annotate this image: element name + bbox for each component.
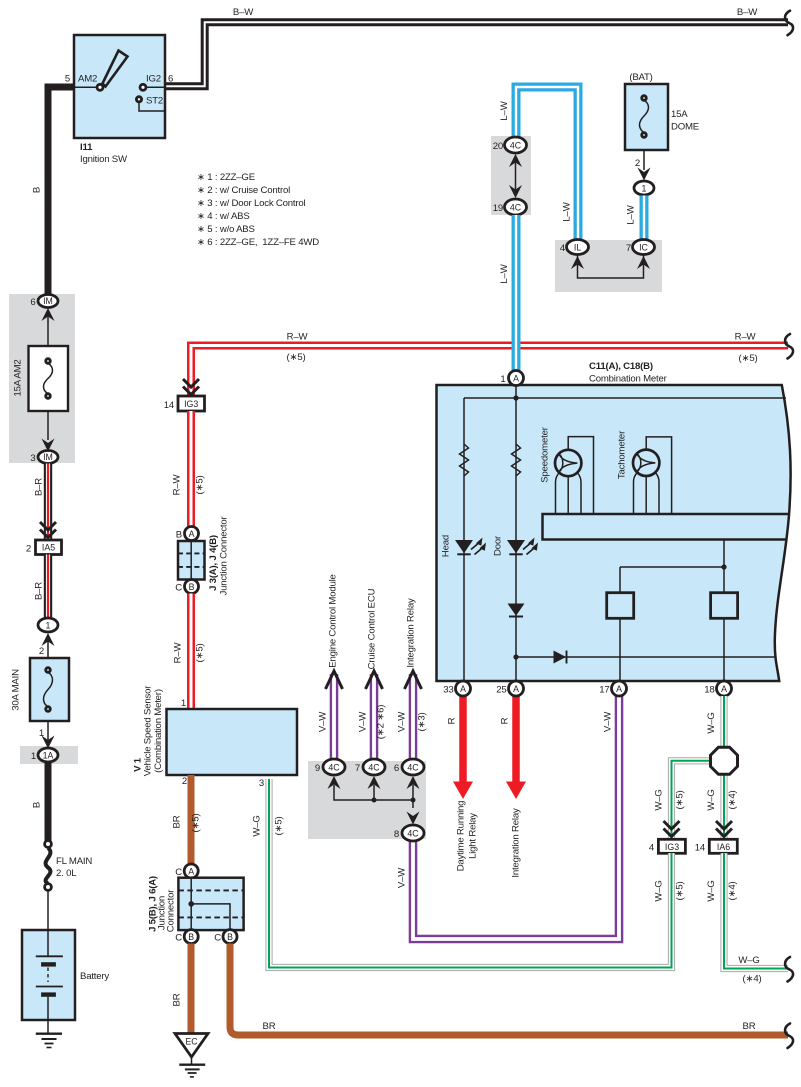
svg-text:IM: IM <box>43 452 53 462</box>
svg-text:A: A <box>513 374 519 384</box>
wire V-W integration relay <box>409 674 418 759</box>
wire R-W from IG3 to J3 A <box>187 411 195 527</box>
pin 2 label <box>635 158 640 169</box>
svg-text:W–G: W–G <box>738 955 759 966</box>
arrow to cruise control ecu <box>366 671 383 689</box>
pin 18 label <box>704 685 714 696</box>
svg-text:A: A <box>460 684 466 694</box>
svg-text:Ignition SW: Ignition SW <box>80 154 128 165</box>
svg-text:(∗5): (∗5) <box>195 476 206 495</box>
connector 20 4C <box>505 137 527 153</box>
svg-text:20: 20 <box>493 141 503 152</box>
svg-text:R–W: R–W <box>287 332 309 343</box>
svg-text:Speedometer: Speedometer <box>540 426 551 482</box>
pin 6 label <box>394 763 399 774</box>
junction connector J5(B) J6(A) circle A <box>184 864 198 878</box>
label Speedometer <box>540 426 551 482</box>
break symbol B-W <box>785 11 793 36</box>
fuse 15A DOME symbol <box>640 96 649 138</box>
label (BAT) <box>629 72 652 83</box>
pin 1 label V1 <box>181 698 186 709</box>
wire W-G from 18 A to octagon <box>720 696 727 748</box>
connector 9 4C <box>323 759 345 775</box>
svg-text:L–W: L–W <box>562 201 573 221</box>
arrow to integration relay <box>405 671 422 689</box>
notes list <box>197 172 319 248</box>
svg-text:2. 0L: 2. 0L <box>56 868 77 879</box>
pin C label <box>175 583 182 594</box>
svg-text:R: R <box>500 717 511 724</box>
wire R-W horizontal from corner to right break <box>191 346 788 397</box>
svg-text:25: 25 <box>496 685 506 696</box>
label W-G below IA6 <box>706 880 717 901</box>
pin 9 label <box>315 763 320 774</box>
fuse 15A DOME box <box>625 84 668 150</box>
squares to pins 17/18 <box>620 618 724 681</box>
label Junction Connector (J3/J4) <box>219 515 230 595</box>
label 15A AM2 <box>13 359 24 396</box>
arrow to engine control module <box>326 671 343 689</box>
label W-G right branch <box>706 789 717 810</box>
connector 7 IC <box>633 240 655 255</box>
svg-text:C: C <box>175 933 182 944</box>
relay square left <box>607 593 634 619</box>
pin C label J5 B left <box>175 933 182 944</box>
label 30A MAIN <box>11 669 22 711</box>
svg-text:9: 9 <box>315 763 320 774</box>
label (*5) at V1 <box>274 817 285 836</box>
svg-text:(∗5): (∗5) <box>675 882 686 901</box>
label (*3) <box>417 713 428 732</box>
junction connector J3(A) J4(B) circle A <box>185 527 199 541</box>
svg-text:∗ 2 : w/ Cruise Control: ∗ 2 : w/ Cruise Control <box>197 185 290 196</box>
svg-text:W–G: W–G <box>252 815 263 836</box>
connector 1 oval DOME <box>634 181 654 195</box>
break symbol BR <box>785 1024 793 1049</box>
pin 33 label <box>443 685 453 696</box>
label Connector (J5/J6) <box>166 889 177 932</box>
label FL MAIN 2.0L <box>56 856 92 879</box>
ignition switch I11 box <box>74 35 165 138</box>
svg-text:R–W: R–W <box>172 474 183 496</box>
pin 6 label <box>30 297 35 308</box>
junction connector J5/J6 circle B left <box>184 930 198 944</box>
fuse 15A AM2 box <box>29 346 69 411</box>
gray connector block: 15A AM2 fuse area <box>9 294 75 463</box>
wire R-W from J3 B to V1 pin 1 <box>187 594 195 710</box>
label (*5) BR <box>191 814 202 833</box>
arrow up into 7 IC <box>637 256 650 269</box>
label J3(A) J4(B) <box>208 535 219 591</box>
svg-text:3: 3 <box>30 453 35 464</box>
svg-text:∗ 4 : w/ ABS: ∗ 4 : w/ ABS <box>197 211 250 222</box>
pin 3 label <box>30 453 35 464</box>
wire B-R from IA5 to connector 1 <box>44 555 52 619</box>
svg-text:V–W: V–W <box>318 711 329 732</box>
pin 20 label <box>493 141 503 152</box>
svg-text:6: 6 <box>168 74 173 85</box>
svg-text:4C: 4C <box>510 203 522 213</box>
wire W-G octagon bottom to 14 IA6 <box>720 773 727 839</box>
label V-W 3 <box>397 711 408 732</box>
break symbol R-W <box>785 334 793 359</box>
label Ignition SW <box>80 154 128 165</box>
wire L-W from 19 4C down to meter pin 1 A <box>512 215 521 371</box>
label IG2 <box>146 74 161 85</box>
pin 5 label <box>65 74 70 85</box>
svg-text:FL MAIN: FL MAIN <box>56 856 92 867</box>
wire to 30A MAIN <box>47 639 49 658</box>
wire stub IG2 <box>146 86 165 88</box>
red arrow integration relay <box>506 696 526 799</box>
svg-text:C: C <box>214 933 221 944</box>
LED door <box>507 538 538 555</box>
wire V-W cruise control ecu <box>370 674 379 759</box>
svg-text:(∗2 ∗6): (∗2 ∗6) <box>376 705 387 739</box>
svg-text:4C: 4C <box>407 763 419 773</box>
terminal ST2 and stub <box>136 97 165 111</box>
label (*5) lower <box>195 644 206 663</box>
connector 1 oval <box>38 618 58 632</box>
svg-text:2: 2 <box>39 646 44 657</box>
svg-text:R: R <box>447 717 458 724</box>
svg-text:30A MAIN: 30A MAIN <box>11 669 22 711</box>
label BR bottom right <box>743 1021 756 1032</box>
meter internal top bus <box>464 395 786 400</box>
wire BR from V1 pin 2 to J5 A <box>188 775 195 865</box>
meter door circuit vertical <box>515 385 517 681</box>
label L-W lower <box>499 263 510 283</box>
pin 14 label <box>695 843 706 854</box>
svg-text:B: B <box>32 802 43 808</box>
label (*4) right branch <box>727 791 738 810</box>
connector 8 4C <box>402 825 424 841</box>
connector 1 A meter <box>509 371 524 386</box>
gray connector block: IL/IC <box>555 240 662 292</box>
svg-text:BR: BR <box>263 1021 276 1032</box>
wire stub AM2 <box>74 86 97 88</box>
label Combination Meter <box>589 374 668 385</box>
label Head <box>441 535 452 557</box>
wire below fuse <box>47 411 49 440</box>
arrow up into connector 1 <box>42 633 55 646</box>
svg-text:W–G: W–G <box>654 880 665 901</box>
svg-text:4C: 4C <box>328 763 340 773</box>
svg-text:B: B <box>32 187 43 193</box>
printed plate band <box>543 514 789 540</box>
svg-text:R–W: R–W <box>735 332 757 343</box>
diode door line <box>508 604 525 617</box>
red arrow daytime running light relay <box>453 696 473 799</box>
svg-text:IA6: IA6 <box>717 842 730 852</box>
arrow down into connector 1 <box>638 168 651 181</box>
label Tachometer <box>617 430 628 479</box>
connector 3 IM <box>38 451 58 464</box>
arrow down into 1A <box>42 736 55 749</box>
fuse 30A MAIN symbol <box>44 668 53 712</box>
svg-text:A: A <box>513 684 519 694</box>
wire BR from J5 B right to bottom right break <box>230 944 788 1036</box>
svg-text:1: 1 <box>500 374 505 385</box>
svg-text:Integration Relay: Integration Relay <box>511 808 522 878</box>
tachometer gauge <box>633 437 672 514</box>
arrow down into 8 4C <box>407 812 420 825</box>
pin 4 label <box>560 243 566 254</box>
link wiring 4C block <box>334 785 416 808</box>
label V-W 2 <box>358 711 369 732</box>
svg-text:17: 17 <box>599 685 609 696</box>
pin 1 label <box>31 751 36 762</box>
svg-text:6: 6 <box>30 297 35 308</box>
combination meter box <box>437 385 791 681</box>
junction connector J3/J4 circle B <box>185 580 199 594</box>
svg-text:∗ 1 : 2ZZ–GE: ∗ 1 : 2ZZ–GE <box>197 172 255 183</box>
svg-text:Cruise Control ECU: Cruise Control ECU <box>367 588 378 669</box>
svg-text:B–W: B–W <box>737 7 758 18</box>
fuse 30A MAIN box <box>30 658 69 721</box>
svg-text:(∗5): (∗5) <box>274 817 285 836</box>
wire below DOME fuse <box>643 150 645 170</box>
label (*4) below IA6 <box>727 882 738 901</box>
svg-text:7: 7 <box>626 243 631 254</box>
wire BR from J5 B left to EC ground <box>188 944 195 1034</box>
chevron arrow into 4 IG3 <box>664 821 680 837</box>
svg-text:4: 4 <box>560 243 566 254</box>
ignition switch lever <box>103 51 128 87</box>
terminal AM2 <box>97 84 103 90</box>
pin 19 label <box>493 203 503 214</box>
label Vehicle Speed Sensor <box>143 685 154 776</box>
svg-text:C11(A), C18(B): C11(A), C18(B) <box>589 361 653 372</box>
wire V-W from 17 A down around to 8 4C <box>413 696 619 939</box>
svg-text:(∗4): (∗4) <box>743 974 762 985</box>
svg-text:B–W: B–W <box>233 7 254 18</box>
connector 4 IG3 <box>658 839 685 853</box>
label W-G at V1 <box>252 815 263 836</box>
connector 2 IA5 <box>36 540 62 555</box>
svg-text:IG2: IG2 <box>146 74 161 85</box>
label ST2 <box>146 96 163 107</box>
svg-text:L–W: L–W <box>626 204 637 224</box>
link wire IL-IC <box>578 254 644 278</box>
connector 17 A <box>612 681 627 696</box>
label B-W left <box>233 7 254 18</box>
arrow up into 20 4C <box>509 154 522 167</box>
meter head circuit vertical <box>463 398 465 681</box>
vehicle speed sensor V1 box <box>167 709 298 775</box>
svg-text:BR: BR <box>172 993 183 1006</box>
svg-text:(∗5): (∗5) <box>195 644 206 663</box>
svg-text:(BAT): (BAT) <box>629 72 652 83</box>
svg-text:DOME: DOME <box>671 122 699 133</box>
label (Combination Meter) <box>153 689 164 773</box>
junction connector J3/J4 box <box>178 541 205 580</box>
wire B-W from ignition IG2 to top right break <box>165 22 788 86</box>
svg-text:C: C <box>175 867 182 878</box>
svg-text:B–R: B–R <box>34 478 45 496</box>
label B-R <box>34 478 45 496</box>
svg-text:V–W: V–W <box>397 711 408 732</box>
gray highlight: connector 1A <box>20 746 78 764</box>
svg-text:4C: 4C <box>510 141 522 151</box>
svg-text:Engine Control Module: Engine Control Module <box>328 574 339 667</box>
label R-W lower <box>173 642 184 664</box>
label (*2 *6) <box>376 705 387 739</box>
wire to fuse <box>47 314 49 359</box>
svg-text:ST2: ST2 <box>146 96 163 107</box>
svg-text:19: 19 <box>493 203 503 214</box>
svg-text:J 3(A), J 4(B): J 3(A), J 4(B) <box>208 535 219 591</box>
ground below battery <box>36 1034 62 1048</box>
chevron arrow into IA5 <box>40 522 56 538</box>
svg-text:1A: 1A <box>43 751 54 761</box>
pin 7 label <box>355 763 360 774</box>
pin 7 label <box>626 243 631 254</box>
pin 2 label above 30A MAIN <box>39 646 44 657</box>
svg-text:4C: 4C <box>407 829 419 839</box>
svg-text:(∗5): (∗5) <box>287 352 306 363</box>
svg-text:BR: BR <box>172 815 183 828</box>
chevron arrow into 14 IA6 <box>716 821 732 837</box>
svg-text:W–G: W–G <box>654 789 665 810</box>
label L-W upper left <box>499 100 510 120</box>
svg-text:6: 6 <box>394 763 399 774</box>
svg-text:W–G: W–G <box>706 880 717 901</box>
svg-text:Vehicle Speed Sensor: Vehicle Speed Sensor <box>143 685 154 776</box>
svg-text:A: A <box>189 529 195 539</box>
svg-text:Connector: Connector <box>166 889 177 932</box>
label Door <box>493 535 504 556</box>
label 15A DOME <box>671 109 699 133</box>
svg-text:Door: Door <box>493 535 504 556</box>
svg-text:B: B <box>227 932 233 942</box>
svg-text:∗ 3 : w/ Door Lock Control: ∗ 3 : w/ Door Lock Control <box>197 198 305 209</box>
wire W-G from 4 IG3 down left up to V1 pin 3 <box>269 779 672 968</box>
svg-text:4: 4 <box>649 843 655 854</box>
junction connector J5/J6 circle B right <box>223 930 237 944</box>
svg-text:B: B <box>176 530 182 541</box>
svg-text:1: 1 <box>181 698 186 709</box>
svg-text:A: A <box>721 684 727 694</box>
gray connector block: 4C 20/19 <box>491 136 531 215</box>
svg-text:Daytime Running: Daytime Running <box>456 801 467 872</box>
svg-text:Light Relay: Light Relay <box>468 813 479 859</box>
svg-text:14: 14 <box>695 843 706 854</box>
connector 4 IL <box>567 240 589 255</box>
svg-text:∗ 6 : 2ZZ–GE, 1ZZ–FE 4WD: ∗ 6 : 2ZZ–GE, 1ZZ–FE 4WD <box>197 237 319 248</box>
label R-W top left <box>287 332 309 343</box>
label Junction (J5/J6) <box>157 896 168 930</box>
label (*5) top left <box>287 352 306 363</box>
pin 3 label V1 <box>259 778 264 789</box>
svg-text:W–G: W–G <box>706 712 717 733</box>
wire B from 1A to FL MAIN <box>45 762 52 841</box>
meter bottom bus with diode <box>513 651 776 664</box>
speedometer gauge <box>555 437 594 514</box>
connector 14 IG3 <box>178 396 205 411</box>
pin 2 label <box>26 544 31 555</box>
label (*5) below IG3 <box>675 882 686 901</box>
svg-text:7: 7 <box>355 763 360 774</box>
svg-text:C: C <box>175 583 182 594</box>
svg-text:(∗5): (∗5) <box>675 791 686 810</box>
pin C label J5 A <box>175 867 182 878</box>
battery symbol <box>36 930 63 1033</box>
wire B thick from ignition AM2 down to 6 IM <box>48 87 74 295</box>
svg-text:B–R: B–R <box>34 582 45 600</box>
fuse 15A AM2 symbol <box>44 359 53 399</box>
label R right <box>500 717 511 724</box>
svg-text:1: 1 <box>642 184 647 194</box>
label V-W at 8 <box>397 867 408 888</box>
terminal IG2 <box>140 84 146 90</box>
svg-text:Combination Meter: Combination Meter <box>589 374 668 385</box>
arrow up into 6 IM <box>42 308 55 321</box>
label W-G at 18 <box>706 712 717 733</box>
pin 6 label <box>168 74 173 85</box>
svg-text:L–W: L–W <box>499 100 510 120</box>
svg-text:AM2: AM2 <box>78 74 97 85</box>
label (*4) bottom right <box>743 974 762 985</box>
arrow down into 19 4C <box>509 185 522 198</box>
connector 19 4C <box>505 199 527 215</box>
label W-G below IG3 <box>654 880 665 901</box>
pin 8 label <box>394 829 399 840</box>
pin 4 label <box>649 843 655 854</box>
svg-text:Tachometer: Tachometer <box>617 430 628 479</box>
svg-text:L–W: L–W <box>499 263 510 283</box>
svg-text:BR: BR <box>743 1021 756 1032</box>
relay square right <box>711 593 738 619</box>
label J5(B) J6(A) <box>148 876 159 932</box>
svg-text:(Combination Meter): (Combination Meter) <box>153 689 164 773</box>
wire B-R from 3 IM to IA5 <box>44 464 52 541</box>
label Battery <box>80 971 109 982</box>
svg-text:EC: EC <box>185 1037 198 1047</box>
pin 14 label <box>164 400 175 411</box>
ground EC symbol <box>179 1057 205 1077</box>
label B <box>32 187 43 193</box>
label V 1 <box>133 757 144 772</box>
wire W-G octagon left branch to 4 IG3 <box>672 761 713 839</box>
connector 6 4C <box>402 759 424 775</box>
label (*5) top right <box>739 353 758 364</box>
label L-W DOME branch <box>626 204 637 224</box>
connector 14 IA6 <box>709 839 737 853</box>
resistor door <box>512 444 521 476</box>
label R-W top right <box>735 332 757 343</box>
label R-W mid <box>172 474 183 496</box>
svg-text:IM: IM <box>43 296 53 306</box>
pin B label <box>176 530 182 541</box>
svg-text:A: A <box>188 867 194 877</box>
svg-text:I11: I11 <box>80 142 93 153</box>
junction connector J5/J6 box <box>178 878 243 930</box>
gray connector block: 4C 9/7/6/8 <box>308 761 426 839</box>
arrow up into 4 IL <box>571 256 584 269</box>
label Daytime Running <box>456 801 467 872</box>
label V-W 1 <box>318 711 329 732</box>
svg-text:8: 8 <box>394 829 399 840</box>
ground EC triangle <box>175 1034 208 1058</box>
svg-text:V–W: V–W <box>603 711 614 732</box>
label Cruise Control ECU <box>367 588 378 669</box>
svg-text:1: 1 <box>46 621 51 631</box>
chevron arrow into 14 IG3 <box>183 379 199 395</box>
svg-text:Head: Head <box>441 535 452 557</box>
svg-text:IC: IC <box>639 243 648 253</box>
svg-text:V–W: V–W <box>397 867 408 888</box>
